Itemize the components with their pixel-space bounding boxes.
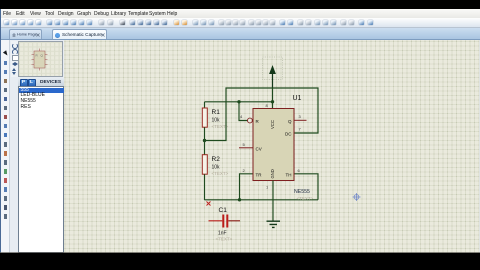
label C1 TEXT placeholder	[216, 237, 233, 242]
svg-text:GND: GND	[270, 169, 275, 178]
wire GND pin (272,180.5)-(272,221)	[272, 181, 274, 222]
svg-text:R1: R1	[212, 109, 221, 116]
power terminal VCC arrow	[269, 65, 276, 88]
U1 pin 5 CV stub	[239, 147, 253, 149]
wire VCC vertical to U1 pin 8	[272, 88, 274, 109]
svg-text:Q: Q	[288, 119, 292, 124]
U1 pin TH name	[286, 172, 292, 177]
pin number 1	[266, 185, 269, 190]
wire reset net (238,102)-(238,120.5)-(246,120.5)	[239, 102, 247, 121]
wire R1R2-to-DC net (204,140.5)-(225,140.5)-(225,88)-(317,88)-(317,133)-(293,133)	[205, 88, 319, 141]
label R1 TEXT placeholder	[212, 124, 229, 129]
op-amp/timer U1 NE555 body	[253, 109, 294, 181]
node junction reset branch (238,102)	[237, 100, 240, 103]
svg-text:10k: 10k	[212, 165, 221, 171]
ground symbol	[267, 221, 281, 227]
capacitor C1 loose end marker	[207, 202, 211, 206]
svg-text:<TEXT>: <TEXT>	[297, 196, 314, 201]
wire left rail mid (204,127)-(204,155)	[204, 127, 206, 155]
label C1 value 1nF	[218, 231, 227, 237]
U1 pin 4 reset bubble	[248, 118, 253, 123]
svg-text:U1: U1	[293, 95, 302, 102]
pin number 5	[243, 142, 246, 147]
wire bottom net (204,200)-(317,200)	[205, 199, 319, 201]
U1 pin 3 Q stub	[294, 119, 307, 121]
svg-text:TH: TH	[286, 172, 292, 177]
pin number 8	[266, 103, 269, 108]
svg-text:DC: DC	[285, 132, 292, 137]
label R2 value 10k	[212, 165, 221, 171]
pin number 2	[243, 168, 246, 173]
capacitor C1 plates	[222, 215, 228, 228]
node junction bottom (238,200)	[238, 198, 241, 201]
label R1 value 10k	[212, 118, 221, 124]
U1 pin CV name	[256, 147, 262, 152]
cursor crosshair marker	[353, 193, 361, 201]
pin number 7	[299, 127, 302, 132]
U1 pin R name	[256, 119, 260, 124]
svg-text:C1: C1	[219, 207, 228, 214]
wire threshold net (293,174)-(317,174)-(317,200)	[294, 174, 318, 200]
pin number 6	[298, 168, 301, 173]
wire VCC horizontal (204,102)-(271,102)	[205, 101, 273, 103]
label R2 refdes	[212, 156, 221, 163]
label C1 refdes	[219, 207, 228, 214]
label U1 TEXT placeholder	[297, 196, 314, 201]
wire left rail bottom (204,174)-(204,200)	[204, 174, 206, 200]
svg-text:R2: R2	[212, 156, 221, 163]
U1 pin Q name	[288, 119, 292, 124]
svg-text:10k: 10k	[212, 118, 221, 124]
resistor R2 body	[202, 155, 207, 175]
svg-text:<TEXT>: <TEXT>	[212, 171, 229, 176]
resistor R1 body	[202, 108, 207, 127]
U1 pin GND name (rotated)	[270, 169, 275, 178]
U1 pin VCC name (rotated)	[270, 120, 275, 129]
node junction at VCC line (271,102)	[271, 100, 274, 103]
node junction R1/R2 (204,140.5)	[203, 139, 206, 142]
wire left rail top (204,102)-(204,108)	[204, 102, 206, 109]
pin number 4	[240, 114, 243, 119]
pin number 3	[299, 114, 302, 119]
U1 pin TR name	[256, 172, 263, 177]
U1 pin DC name	[285, 132, 292, 137]
capacitor C1 left pin	[209, 220, 223, 222]
svg-text:NE555: NE555	[294, 189, 310, 195]
label R1 refdes	[212, 109, 221, 116]
capacitor C1 right pin	[228, 220, 240, 222]
label U1 refdes	[293, 95, 302, 102]
label R2 TEXT placeholder	[212, 171, 229, 176]
svg-text:TR: TR	[256, 172, 263, 177]
svg-text:<TEXT>: <TEXT>	[216, 237, 233, 242]
label U1 value NE555	[294, 189, 310, 195]
svg-text:CV: CV	[256, 147, 262, 152]
wire trigger net (238.5,174)-(238.5,200)	[240, 174, 254, 200]
selection box around power terminal	[263, 57, 283, 80]
svg-text:VCC: VCC	[270, 120, 275, 129]
